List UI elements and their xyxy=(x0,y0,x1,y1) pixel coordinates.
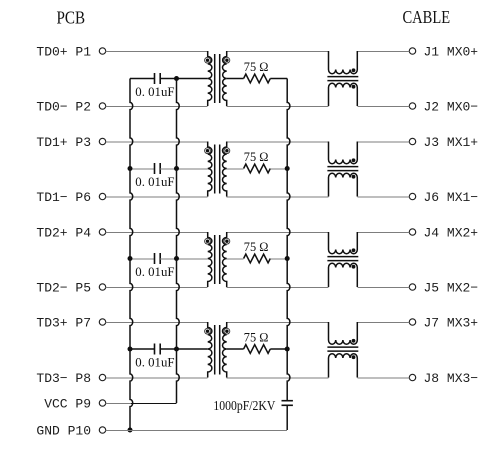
transformer ch0 secondary phase dot xyxy=(224,57,230,63)
transformer ch2 primary phase dot xyxy=(205,238,211,244)
pin P6 terminal circle xyxy=(99,193,105,199)
choke ch2 top phase dot xyxy=(352,248,356,252)
pin P4 terminal circle xyxy=(99,229,105,235)
svg-text:J4 MX2+: J4 MX2+ xyxy=(424,226,479,241)
svg-text:75 Ω: 75 Ω xyxy=(244,240,269,254)
junction center tap / VCC bus ch3 xyxy=(174,347,179,352)
svg-text:75 Ω: 75 Ω xyxy=(244,330,269,344)
wire choke to J6 xyxy=(357,196,409,198)
transformer ch2 secondary winding xyxy=(222,232,226,287)
wire secondary center tap to resistor ch3 xyxy=(227,348,244,350)
svg-text:0. 01uF: 0. 01uF xyxy=(135,264,174,279)
choke ch0 core xyxy=(327,76,358,78)
svg-text:J6 MX1−: J6 MX1− xyxy=(424,190,479,205)
svg-text:TD2− P5: TD2− P5 xyxy=(36,281,91,296)
wire transformer secondary bottom to choke ch1 xyxy=(227,196,329,198)
svg-text:1000pF/2KV: 1000pF/2KV xyxy=(213,398,275,413)
choke ch1 top phase dot xyxy=(352,158,356,162)
choke ch3 top phase dot xyxy=(352,339,356,343)
junction capacitor / GND bus ch2 xyxy=(128,256,133,261)
junction resistor / termination bus ch2 xyxy=(285,256,290,261)
wire secondary center tap to resistor ch2 xyxy=(227,258,244,260)
transformer ch1 primary phase dot xyxy=(205,148,211,154)
wire transformer secondary top to choke ch1 xyxy=(227,141,329,143)
transformer ch1 primary winding xyxy=(208,142,212,197)
pin J3 terminal circle xyxy=(409,138,415,144)
wire choke to J5 xyxy=(357,287,409,289)
svg-text:0. 01uF: 0. 01uF xyxy=(135,174,174,189)
svg-text:J8 MX3−: J8 MX3− xyxy=(424,371,479,386)
wire choke to J4 xyxy=(357,232,409,234)
choke ch1 core xyxy=(327,166,358,168)
svg-text:J7 MX3+: J7 MX3+ xyxy=(424,316,479,331)
wire capacitor to primary center tap ch0 xyxy=(160,78,208,80)
wire transformer secondary top to choke ch2 xyxy=(227,232,329,234)
common-mode choke ch3 top winding xyxy=(329,322,358,344)
choke ch1 bottom phase dot xyxy=(352,175,356,179)
resistor 75 Ohm ch0 xyxy=(244,74,271,83)
pin J2 terminal circle xyxy=(409,103,415,109)
wire TD1+ P3 to transformer primary top xyxy=(106,141,208,143)
junction center tap / VCC bus ch2 xyxy=(174,256,179,261)
svg-text:TD1+ P3: TD1+ P3 xyxy=(36,135,91,150)
capacitor 0.01uF ch3 xyxy=(130,344,160,355)
svg-text:75 Ω: 75 Ω xyxy=(244,60,269,74)
transformer ch3 secondary phase dot xyxy=(224,328,230,334)
svg-text:0. 01uF: 0. 01uF xyxy=(135,84,174,99)
pin P7 terminal circle xyxy=(99,319,105,325)
choke ch0 bottom phase dot xyxy=(352,85,356,89)
pin J4 terminal circle xyxy=(409,229,415,235)
wire capacitor to primary center tap ch3 xyxy=(160,348,208,350)
wire TD3+ P7 to transformer primary top xyxy=(106,322,208,324)
choke ch2 core xyxy=(327,256,358,258)
transformer ch0 secondary winding xyxy=(222,51,226,106)
wire capacitor to primary center tap ch1 xyxy=(160,168,208,170)
wire secondary center tap to resistor ch1 xyxy=(227,168,244,170)
pin P3 terminal circle xyxy=(99,138,105,144)
svg-text:TD3− P8: TD3− P8 xyxy=(36,371,91,386)
wire transformer secondary top to choke ch3 xyxy=(227,322,329,324)
resistor 75 Ohm ch1 xyxy=(244,164,271,173)
pin J1 terminal circle xyxy=(409,48,415,54)
svg-text:TD0− P2: TD0− P2 xyxy=(36,100,91,115)
transformer ch2 primary winding xyxy=(208,232,212,287)
choke ch3 bottom phase dot xyxy=(352,355,356,359)
common-mode choke ch0 bottom winding xyxy=(329,83,358,106)
wire resistor to termination bus ch0 xyxy=(270,78,287,80)
resistor 75 Ohm ch2 xyxy=(244,254,271,263)
wire choke to J3 xyxy=(357,141,409,143)
svg-text:GND P10: GND P10 xyxy=(36,424,91,439)
svg-text:TD1− P6: TD1− P6 xyxy=(36,190,91,205)
transformer ch3 secondary winding xyxy=(222,322,226,378)
pin P9 terminal circle xyxy=(99,400,105,406)
wire resistor to termination bus ch1 xyxy=(270,168,287,170)
common-mode choke ch1 top winding xyxy=(329,142,358,164)
svg-text:TD2+ P4: TD2+ P4 xyxy=(36,226,91,241)
wire capacitor to primary center tap ch2 xyxy=(160,258,208,260)
junction resistor / termination bus ch3 xyxy=(285,347,290,352)
wire transformer secondary bottom to choke ch3 xyxy=(227,377,329,379)
capacitor 1000pF/2KV xyxy=(282,401,293,430)
junction center tap / VCC bus ch0 xyxy=(174,76,179,81)
wire TD0- P2 to transformer primary bottom xyxy=(106,106,208,108)
wire GND P10 xyxy=(106,430,288,432)
svg-text:J5 MX2−: J5 MX2− xyxy=(424,281,479,296)
common-mode choke ch0 top winding xyxy=(329,51,358,74)
pin P8 terminal circle xyxy=(99,374,105,380)
choke ch0 top phase dot xyxy=(352,68,356,72)
capacitor 0.01uF ch1 xyxy=(130,163,160,174)
choke ch3 core xyxy=(327,346,358,348)
transformer ch3 primary winding xyxy=(208,322,212,378)
wire transformer secondary bottom to choke ch0 xyxy=(227,106,329,108)
transformer ch1 core xyxy=(214,145,216,194)
transformer ch0 primary winding xyxy=(208,51,212,106)
common-mode choke ch1 bottom winding xyxy=(329,173,358,196)
transformer ch2 core xyxy=(214,235,216,284)
svg-text:0. 01uF: 0. 01uF xyxy=(135,354,174,369)
transformer ch3 core xyxy=(214,325,216,375)
pin J8 terminal circle xyxy=(409,374,415,380)
svg-text:J1 MX0+: J1 MX0+ xyxy=(424,45,479,60)
transformer ch3 primary phase dot xyxy=(205,328,211,334)
pin P10 terminal circle xyxy=(99,427,105,433)
pin J7 terminal circle xyxy=(409,319,415,325)
svg-text:J3 MX1+: J3 MX1+ xyxy=(424,135,479,150)
transformer ch1 secondary phase dot xyxy=(224,148,230,154)
wire TD0+ P1 to transformer primary top xyxy=(106,51,208,53)
wire choke to J1 xyxy=(357,51,409,53)
transformer ch1 secondary winding xyxy=(222,142,226,197)
junction capacitor / GND bus ch1 xyxy=(128,166,133,171)
resistor 75 Ohm ch3 xyxy=(244,345,271,354)
svg-text:TD3+ P7: TD3+ P7 xyxy=(36,316,91,331)
transformer ch0 core xyxy=(214,54,216,103)
pin P1 terminal circle xyxy=(99,48,105,54)
wire choke to J2 xyxy=(357,106,409,108)
wire resistor to termination bus ch3 xyxy=(270,348,287,350)
pin J5 terminal circle xyxy=(409,284,415,290)
pin J6 terminal circle xyxy=(409,193,415,199)
pin P5 terminal circle xyxy=(99,284,105,290)
common-mode choke ch3 bottom winding xyxy=(329,354,358,378)
transformer ch0 primary phase dot xyxy=(205,57,211,63)
junction capacitor / GND bus ch3 xyxy=(128,347,133,352)
wire secondary center tap to resistor ch0 xyxy=(227,78,244,80)
wire TD1- P6 to transformer primary bottom xyxy=(106,196,208,198)
wire resistor to termination bus ch2 xyxy=(270,258,287,260)
svg-text:TD0+ P1: TD0+ P1 xyxy=(36,45,91,60)
svg-text:J2 MX0−: J2 MX0− xyxy=(424,100,479,115)
svg-text:CABLE: CABLE xyxy=(403,7,451,27)
capacitor 0.01uF ch0 xyxy=(130,73,160,84)
transformer ch2 secondary phase dot xyxy=(224,238,230,244)
termination bus (resistor common vertical) xyxy=(287,79,290,401)
common-mode choke ch2 bottom winding xyxy=(329,263,358,287)
wire TD2+ P4 to transformer primary top xyxy=(106,232,208,234)
GND bus (left vertical) xyxy=(130,79,133,431)
common-mode choke ch2 top winding xyxy=(329,232,358,254)
junction GND bus / GND wire xyxy=(128,428,133,433)
choke ch2 bottom phase dot xyxy=(352,265,356,269)
pin P2 terminal circle xyxy=(99,103,105,109)
wire VCC P9 xyxy=(106,403,131,405)
svg-text:PCB: PCB xyxy=(57,7,86,27)
wire TD2- P5 to transformer primary bottom xyxy=(106,287,208,289)
wire transformer secondary bottom to choke ch2 xyxy=(227,287,329,289)
wire transformer secondary top to choke ch0 xyxy=(227,51,329,53)
wire TD3- P8 to transformer primary bottom xyxy=(106,377,208,379)
wire choke to J8 xyxy=(357,377,409,379)
VCC bus (center-tap vertical) xyxy=(177,79,180,404)
junction center tap / VCC bus ch1 xyxy=(174,166,179,171)
capacitor 0.01uF ch2 xyxy=(130,253,160,264)
wire choke to J7 xyxy=(357,322,409,324)
svg-text:75 Ω: 75 Ω xyxy=(244,150,269,164)
junction resistor / termination bus ch1 xyxy=(285,166,290,171)
svg-text:VCC P9: VCC P9 xyxy=(44,397,91,412)
